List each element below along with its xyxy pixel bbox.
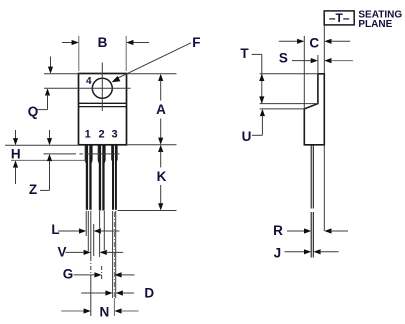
seating plane line upper extension (323, 25, 325, 74)
extension line lead1 right long (90, 211, 92, 257)
seating plane datum box (324, 11, 354, 25)
dim A extension line top right (127, 73, 177, 75)
extension line lead2 right (103, 211, 105, 250)
lead2 centerline dash-dot stub (101, 266, 103, 281)
extension line lead3 right (115, 211, 117, 298)
K lead tip line (118, 210, 177, 212)
svg-text:L: L (51, 222, 59, 237)
dim B arrows and tails (62, 42, 73, 44)
svg-text:Z: Z (29, 182, 37, 197)
lead 2 (98, 145, 105, 211)
side view lead lower segment (310, 212, 312, 258)
body bottom left extension line (5, 144, 79, 146)
svg-text:PLANE: PLANE (358, 19, 392, 30)
dim K arrows (158, 145, 163, 152)
extension line L right (93, 224, 95, 256)
lead 3 (112, 145, 117, 210)
dim N (61, 310, 84, 312)
svg-text:–T–: –T– (329, 11, 350, 25)
svg-text:4: 4 (86, 76, 92, 87)
dim Q bottom arrow and bracket (45, 88, 50, 95)
svg-text:N: N (100, 304, 110, 319)
side view lead upper segment (310, 145, 312, 209)
dim A arrows (158, 74, 163, 81)
extension line lead1 left (85, 211, 87, 236)
tab top extension line (260, 73, 318, 75)
Z reference line across leads (43, 153, 76, 155)
H reference line gray (11, 159, 86, 161)
svg-text:K: K (157, 169, 167, 184)
mounting hole (92, 78, 112, 98)
lead1 centerline dash-dot lower (90, 257, 92, 276)
lead3 centerline gray long (113, 212, 115, 298)
tab step line upper (79, 102, 127, 104)
svg-text:2: 2 (98, 128, 104, 140)
dim A extension line bottom right (127, 144, 177, 146)
extension line lead3 left (112, 211, 114, 298)
extension line lead1 inner (87, 211, 89, 251)
F leader line (114, 43, 191, 80)
svg-text:T: T (240, 46, 249, 61)
svg-text:U: U (242, 129, 252, 144)
svg-text:J: J (274, 246, 282, 261)
hole centerline vertical (101, 63, 103, 111)
svg-text:B: B (98, 35, 108, 50)
T down arrow (259, 96, 264, 103)
svg-text:F: F (192, 35, 200, 50)
svg-text:C: C (309, 35, 319, 50)
dim U arrow and bracket (260, 109, 265, 116)
body outline front view (79, 74, 127, 145)
svg-text:D: D (144, 286, 154, 301)
svg-text:G: G (63, 267, 74, 282)
dim C (279, 40, 298, 42)
svg-text:H: H (11, 146, 21, 161)
side profile outline (304, 74, 324, 145)
dim H top arrow (15, 130, 17, 139)
tab step line lower (79, 106, 127, 108)
svg-text:R: R (273, 223, 283, 238)
dim Z bottom arrow and bracket (47, 154, 52, 161)
T up arrow (259, 74, 264, 81)
step bottom extension line (260, 108, 305, 110)
C extension line (303, 36, 305, 109)
svg-text:1: 1 (85, 128, 91, 140)
dim H bottom arrow (13, 160, 18, 167)
F arrowhead (112, 76, 121, 82)
hole centerline horizontal (44, 87, 131, 89)
step top extension line (260, 103, 318, 105)
lead 1 (85, 145, 92, 210)
dim B extension lines (78, 36, 80, 71)
seating plane line lower extension (323, 145, 325, 231)
extension line lead2 left (99, 211, 101, 257)
dim Z top arrow (49, 130, 51, 139)
svg-text:A: A (156, 102, 166, 117)
body top left extension line (44, 73, 79, 75)
svg-text:S: S (279, 51, 288, 66)
svg-text:Q: Q (28, 104, 39, 119)
dim D (81, 292, 106, 294)
svg-text:3: 3 (112, 128, 118, 140)
svg-text:V: V (57, 244, 66, 259)
dim Q top arrow (50, 57, 52, 68)
S extension line (317, 55, 319, 74)
